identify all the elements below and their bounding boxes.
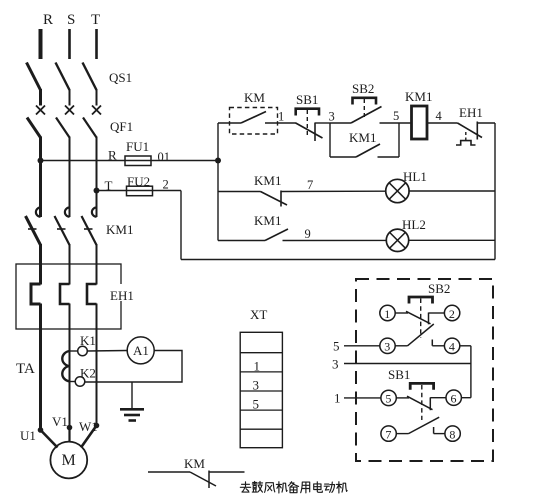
- svg-text:4: 4: [449, 340, 455, 354]
- svg-text:1: 1: [254, 359, 261, 374]
- pushbutton SB1 station actuator cap: [410, 383, 433, 389]
- wire 5 into station: [344, 345, 380, 347]
- svg-text:EH1: EH1: [110, 288, 134, 303]
- terminal block XT divider 2: [240, 371, 282, 373]
- contact KM1 selfhold right lead: [378, 156, 400, 158]
- svg-text:9: 9: [305, 227, 311, 241]
- svg-text:KM1: KM1: [405, 89, 432, 104]
- contactor KM1 pole 2 blade: [55, 216, 70, 245]
- caption char 用: [301, 482, 310, 493]
- contact KM1 selfhold right riser: [398, 123, 400, 157]
- contactor KM1 linkage dash pole 3: [84, 228, 93, 230]
- svg-text:5: 5: [385, 392, 391, 406]
- terminal 3 circle: [380, 338, 395, 353]
- svg-text:XT: XT: [250, 307, 267, 322]
- lamp HL2 circle: [386, 229, 408, 251]
- svg-text:U1: U1: [20, 428, 36, 443]
- wire S QS1-QF1: [69, 89, 71, 106]
- contact SB2 NO lead from 3: [395, 345, 407, 347]
- ground bar 1: [120, 408, 144, 411]
- contact KM outgoing left lead: [148, 471, 190, 473]
- contact KM1 NC lamp1 left lead: [218, 191, 261, 193]
- wire T QF1-KM1: [96, 137, 98, 218]
- svg-text:K1: K1: [80, 333, 96, 348]
- wire S supply stub: [68, 29, 71, 59]
- wire right side drop: [494, 123, 496, 260]
- svg-text:A1: A1: [133, 343, 149, 358]
- caption char 去: [240, 482, 250, 492]
- wire node01 up to rung: [217, 123, 219, 161]
- thermal contact EH1 bar: [476, 122, 478, 140]
- svg-text:2: 2: [449, 307, 455, 321]
- contact KM1 selfhold blade: [356, 144, 380, 157]
- breaker QF1 pole 1 X contact: [36, 106, 45, 115]
- svg-text:M: M: [62, 452, 76, 469]
- ground bar 3: [129, 419, 137, 422]
- wire bottom return rail: [181, 259, 495, 261]
- caption char 鼓: [252, 482, 262, 493]
- svg-text:5: 5: [333, 339, 340, 354]
- svg-text:R: R: [43, 12, 53, 28]
- terminal 6 circle: [446, 390, 461, 405]
- wire node3 to SB2: [330, 122, 351, 124]
- contactor KM1 pole 3 arc: [92, 208, 97, 217]
- wire to HL2: [283, 239, 388, 241]
- pushbutton SB1 actuator dashed link: [306, 110, 308, 136]
- contact SB2 NC lead from 1: [395, 312, 408, 314]
- wire T QS1-QF1: [96, 89, 98, 106]
- wire S QF1-KM1: [69, 137, 71, 218]
- terminal block XT divider 4: [240, 409, 282, 411]
- contact SB1 NO lead from 7: [396, 433, 408, 435]
- svg-text:4: 4: [436, 109, 443, 123]
- svg-text:1: 1: [384, 307, 390, 321]
- svg-text:2: 2: [163, 178, 169, 192]
- svg-text:5: 5: [393, 109, 399, 123]
- svg-text:HL1: HL1: [403, 169, 427, 184]
- svg-text:8: 8: [449, 427, 455, 441]
- junction dot node 01: [215, 158, 221, 164]
- svg-text:R: R: [108, 148, 117, 163]
- contact KM1 NC lamp1 bar: [280, 191, 282, 207]
- terminal block XT body: [240, 332, 282, 447]
- thermal contact EH1 element symbol: [456, 141, 476, 145]
- pushbutton SB1 blade: [296, 123, 323, 138]
- contact KM outgoing blade: [190, 472, 216, 486]
- switch QS1 pole 3 blade: [83, 63, 97, 91]
- wire from terminal 4 right: [460, 345, 471, 347]
- pushbutton SB2 actuator dashed link: [363, 99, 365, 118]
- wire W1 motor lead: [81, 426, 97, 448]
- svg-text:3: 3: [384, 340, 390, 354]
- wire R EH1-motor: [39, 304, 42, 431]
- svg-text:QF1: QF1: [110, 119, 133, 134]
- svg-text:5: 5: [253, 397, 260, 412]
- contact SB2 NC bar: [428, 313, 430, 325]
- breaker QF1 pole 2 blade: [56, 118, 70, 138]
- svg-text:7: 7: [385, 427, 391, 441]
- contact KM1 NO lamp2 blade: [265, 229, 288, 241]
- wire KM to SB1: [265, 122, 296, 124]
- breaker QF1 pole 1 blade: [27, 118, 41, 138]
- contact KM1 NC lamp1 blade: [261, 192, 288, 206]
- wire R QS1-QF1: [39, 89, 42, 106]
- svg-text:T: T: [91, 12, 100, 28]
- pushbutton SB1 actuator cap: [296, 109, 319, 116]
- terminal K1 link wire: [70, 350, 78, 352]
- contactor KM1 pole 1 blade: [26, 216, 41, 245]
- switch QS1 pole 2 blade: [56, 63, 70, 91]
- svg-text:3: 3: [329, 110, 335, 124]
- heater element phase R: [31, 284, 41, 304]
- contactor KM1 pole 2 arc: [65, 208, 70, 217]
- contact KM outgoing right lead: [209, 471, 245, 473]
- svg-text:FU1: FU1: [126, 139, 149, 154]
- terminal K1 circle: [78, 346, 88, 356]
- wire HL2 to right rail: [408, 239, 495, 241]
- terminal block XT divider 3: [240, 390, 282, 392]
- fuse FU1 body: [125, 156, 151, 166]
- pushbutton SB2 actuator cap: [353, 98, 377, 105]
- contact KM remote dashed box: [230, 108, 278, 135]
- fuse FU2 body: [127, 186, 153, 196]
- caption char 备: [288, 482, 298, 493]
- more sections appended below: [181, 81, 495, 260]
- terminal K2 link wire: [70, 381, 76, 383]
- contact KM1 selfhold branch left wire: [329, 123, 331, 157]
- contact SB2 NO lead to 4: [432, 345, 444, 347]
- wire V1 motor lead: [68, 428, 70, 443]
- thermal contact EH1 right lead: [477, 122, 495, 124]
- junction dot V1: [67, 425, 73, 431]
- wire T EH1-motor: [96, 304, 98, 426]
- wire riser 4-6: [470, 346, 472, 398]
- wire FU2 down to bottom rail: [180, 191, 182, 260]
- breaker QF1 pole 2 X contact: [65, 106, 74, 115]
- svg-text:V1: V1: [52, 414, 68, 429]
- wire left drop to lamp rungs: [217, 161, 219, 241]
- wire S EH1-motor: [69, 304, 71, 428]
- contact KM1 NO lamp2 left lead: [218, 240, 265, 242]
- wire FU1 branch: [41, 160, 219, 162]
- heater element phase S: [60, 284, 70, 304]
- svg-text:7: 7: [307, 178, 313, 192]
- ground stem: [131, 382, 133, 409]
- terminal 4 circle: [444, 338, 459, 353]
- contact SB1 NO tick: [433, 427, 435, 434]
- wire HL1 to right rail: [408, 190, 495, 192]
- svg-text:SB1: SB1: [388, 367, 410, 382]
- terminal 2 circle: [444, 305, 459, 320]
- svg-text:6: 6: [451, 392, 457, 406]
- wire ammeter to right corner: [85, 351, 182, 383]
- thermal relay EH1 box: [16, 264, 121, 329]
- thermal contact EH1 dashed link: [465, 132, 467, 140]
- pushbutton SB2 station dashed link: [420, 299, 422, 338]
- contactor KM1 linkage dash pole 1: [28, 228, 37, 230]
- wire R KM1-EH1: [39, 244, 42, 285]
- wire U1 motor lead: [41, 430, 58, 448]
- svg-text:TA: TA: [16, 361, 35, 377]
- contact SB1 NO blade: [409, 417, 440, 433]
- terminal 5 circle: [381, 390, 396, 405]
- contact KM blade: [241, 112, 266, 124]
- svg-text:SB2: SB2: [428, 281, 450, 296]
- current transformer TA winding arc 2: [62, 366, 69, 381]
- wire 3 into station: [344, 363, 471, 365]
- contact SB1 NC bar: [429, 397, 431, 410]
- caption char 电: [314, 482, 323, 493]
- terminal block XT divider 1: [240, 352, 282, 354]
- ammeter A1 circle: [127, 337, 154, 364]
- terminal K2 circle: [75, 377, 85, 387]
- thermal relay EH1 label: [108, 284, 140, 301]
- wire SB1 to node 3: [315, 122, 330, 124]
- contactor KM1 pole 1 arc: [36, 208, 41, 217]
- svg-text:1: 1: [334, 391, 341, 406]
- contact SB2 NC lead to 2: [429, 312, 445, 314]
- svg-text:3: 3: [332, 357, 339, 372]
- svg-text:S: S: [67, 12, 75, 28]
- lamp HL1 cross: [389, 183, 405, 199]
- wire FU2 branch: [97, 190, 182, 192]
- contact SB2 NO blade: [408, 324, 434, 346]
- svg-text:KM1: KM1: [349, 130, 376, 145]
- pushbutton SB2 blade: [351, 107, 382, 124]
- junction dot U1: [38, 427, 44, 433]
- terminal 1 circle: [380, 305, 395, 320]
- svg-text:KM1: KM1: [254, 173, 281, 188]
- contact SB1 NO lead to 8: [434, 433, 445, 435]
- caption char 风: [265, 483, 275, 493]
- heater element phase T: [87, 284, 97, 304]
- svg-text:KM: KM: [244, 90, 265, 105]
- wire S KM1-EH1: [69, 244, 71, 285]
- station enclosure dashed box: [356, 279, 493, 461]
- terminal block XT divider 5: [240, 428, 282, 430]
- lamp HL1 circle: [386, 179, 409, 202]
- contact SB2 NC blade: [406, 311, 431, 324]
- contact SB1 NC lead from 5: [396, 397, 409, 399]
- breaker QF1 pole 3 blade: [83, 118, 97, 138]
- wire SB2 to node 5: [380, 122, 412, 124]
- terminal 7 circle: [381, 426, 396, 441]
- svg-text:K2: K2: [80, 366, 96, 381]
- caption char 动: [324, 482, 334, 492]
- svg-text:1: 1: [278, 110, 284, 124]
- wire T supply stub: [95, 29, 98, 59]
- junction dot W1: [94, 423, 100, 429]
- contact KM outgoing bar: [208, 471, 210, 489]
- svg-text:KM: KM: [184, 456, 205, 471]
- svg-text:QS1: QS1: [109, 70, 132, 85]
- pushbutton SB1 station dashed link: [421, 385, 423, 420]
- contact KM1 selfhold left lead: [330, 156, 356, 158]
- contact SB1 NC lead to 6: [430, 397, 446, 399]
- contact SB2 NO tick: [431, 340, 433, 346]
- svg-text:3: 3: [253, 378, 260, 393]
- thermal contact EH1 blade: [458, 123, 483, 138]
- junction dot T-FU2: [94, 188, 100, 194]
- contact SB1 NC blade: [407, 396, 433, 410]
- wire rung to KM contact: [218, 122, 241, 124]
- caption char 机: [336, 482, 347, 493]
- svg-text:SB1: SB1: [296, 92, 318, 107]
- coil KM1 body: [412, 106, 428, 139]
- svg-text:T: T: [105, 178, 113, 193]
- junction dot R-FU1: [38, 158, 44, 164]
- wire T KM1-EH1: [96, 244, 98, 285]
- wire 1 into station: [344, 397, 381, 399]
- svg-text:01: 01: [158, 150, 171, 164]
- terminal 8 circle: [445, 426, 460, 441]
- wire from terminal 6 right: [461, 397, 471, 399]
- svg-text:KM1: KM1: [106, 222, 133, 237]
- wire K1 to ammeter: [87, 350, 127, 353]
- motor M circle: [50, 442, 87, 479]
- ground bar 2: [124, 414, 140, 417]
- wire coil to EH1 contact: [428, 122, 458, 124]
- lamp HL2 cross: [390, 232, 406, 248]
- contactor KM1 linkage dash pole 2: [57, 228, 66, 230]
- svg-text:EH1: EH1: [459, 105, 483, 120]
- wire R supply stub: [39, 29, 43, 59]
- current transformer TA winding arc 1: [62, 351, 69, 366]
- contactor KM1 pole 3 blade: [82, 216, 97, 245]
- caption char 机: [276, 482, 287, 493]
- wire R QF1-KM1: [39, 137, 42, 218]
- switch QS1 pole 1 blade: [27, 63, 41, 91]
- wire to HL1: [281, 190, 387, 192]
- breaker QF1 pole 3 X contact: [92, 106, 101, 115]
- svg-text:SB2: SB2: [352, 81, 374, 96]
- pushbutton SB2 station actuator cap: [409, 297, 433, 304]
- pushbutton SB1 contact bar: [314, 123, 316, 142]
- svg-text:KM1: KM1: [254, 213, 281, 228]
- svg-text:HL2: HL2: [402, 217, 426, 232]
